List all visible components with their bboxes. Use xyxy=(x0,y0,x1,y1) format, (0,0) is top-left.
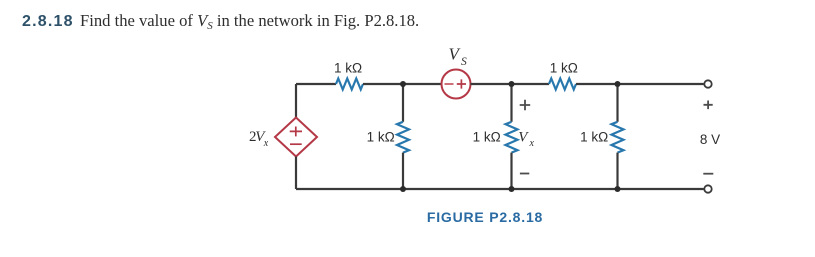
branch wire R5 top xyxy=(616,84,618,122)
label R4 1 kOhm xyxy=(473,130,501,145)
minus sign 8V xyxy=(703,173,713,175)
label 2Vx xyxy=(249,129,269,149)
problem title xyxy=(22,11,419,32)
wire left rail top xyxy=(295,84,297,118)
node B top-middle junction xyxy=(509,81,515,87)
label Vx xyxy=(518,129,534,149)
wire top segment right of VS xyxy=(471,83,550,85)
terminal top right open circle xyxy=(704,80,711,87)
figure caption xyxy=(427,209,543,225)
svg-text:S: S xyxy=(461,56,467,68)
label R1 1 kOhm xyxy=(334,61,362,76)
label R5 1 kOhm xyxy=(580,130,608,145)
node A top-left junction xyxy=(400,81,406,87)
branch wire R4 top xyxy=(510,84,512,122)
resistor R3 1 kOhm vertical xyxy=(397,122,409,153)
bottom wire xyxy=(296,188,704,190)
svg-text:x: x xyxy=(263,138,269,149)
svg-text:1 kΩ: 1 kΩ xyxy=(473,130,501,145)
svg-text:1 kΩ: 1 kΩ xyxy=(334,61,362,76)
branch wire R5 bottom xyxy=(616,153,618,189)
svg-text:1 kΩ: 1 kΩ xyxy=(367,130,395,145)
label R3 1 kOhm xyxy=(367,130,395,145)
node F bottom-right junction xyxy=(615,186,621,192)
resistor R4 1 kOhm vertical xyxy=(506,122,518,153)
node E bottom-middle junction xyxy=(509,186,515,192)
svg-text:2.8.18: 2.8.18 xyxy=(22,13,74,30)
dependent source 2Vx diamond xyxy=(275,118,317,157)
wire top right segment xyxy=(576,83,704,85)
label VS xyxy=(449,45,468,69)
branch wire R3 top xyxy=(402,84,404,122)
plus sign Vx xyxy=(520,100,531,110)
resistor R1 1 kOhm horizontal top-left xyxy=(336,79,363,90)
label 8V xyxy=(700,132,720,147)
wire top left segment xyxy=(296,83,336,85)
svg-text:x: x xyxy=(529,138,535,149)
voltage source VS circle xyxy=(442,70,471,99)
svg-text:FIGURE P2.8.18: FIGURE P2.8.18 xyxy=(427,209,543,225)
svg-text:1 kΩ: 1 kΩ xyxy=(580,130,608,145)
wire top middle segment xyxy=(363,83,442,85)
resistor R2 1 kOhm horizontal top-right xyxy=(549,79,576,90)
plus sign 8V xyxy=(704,101,713,110)
node C top-right junction xyxy=(615,81,621,87)
node D bottom-left junction xyxy=(400,186,406,192)
minus sign Vx xyxy=(520,173,529,175)
branch wire R4 bottom xyxy=(510,153,512,189)
terminal bottom right open circle xyxy=(704,185,711,192)
svg-text:8 V: 8 V xyxy=(700,132,720,147)
resistor R5 1 kOhm vertical xyxy=(612,122,624,153)
label R2 1 kOhm xyxy=(550,61,578,76)
branch wire R3 bottom xyxy=(402,153,404,189)
svg-text:1 kΩ: 1 kΩ xyxy=(550,61,578,76)
wire left rail bottom xyxy=(295,157,297,190)
svg-text:Find the value of VS in the ne: Find the value of VS in the network in F… xyxy=(80,11,419,32)
